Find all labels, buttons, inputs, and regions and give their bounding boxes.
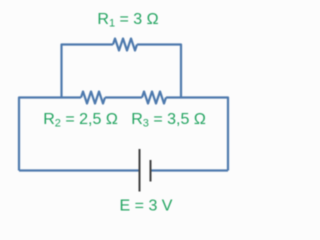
wire: bottom right (from battery negative plate) xyxy=(152,169,229,171)
battery E xyxy=(140,149,151,192)
battery short plate xyxy=(150,160,152,182)
resistor R2 xyxy=(81,92,105,104)
resistor R3 xyxy=(142,92,166,104)
svg-text:R3 = 3,5 Ω: R3 = 3,5 Ω xyxy=(131,111,206,130)
wire: middle left (outer top-left corner to R2) xyxy=(19,98,81,171)
svg-text:R1 = 3 Ω: R1 = 3 Ω xyxy=(97,11,158,30)
wire: upper-loop left segment (top-left corner + left vertical down to node A) xyxy=(62,45,114,98)
wire: upper-loop right segment (top-right corner + right vertical down to node B) xyxy=(137,45,181,98)
svg-text:E = 3 V: E = 3 V xyxy=(120,198,173,215)
wire: middle right (R3 to outer top-right corner and down) xyxy=(166,98,228,171)
resistor R1 xyxy=(113,39,137,51)
wire: middle segment between R2 and R3 xyxy=(105,96,142,98)
svg-text:R2 = 2,5 Ω: R2 = 2,5 Ω xyxy=(43,111,118,130)
battery long plate xyxy=(139,149,141,192)
wire: bottom left (to battery positive plate) xyxy=(19,169,139,171)
